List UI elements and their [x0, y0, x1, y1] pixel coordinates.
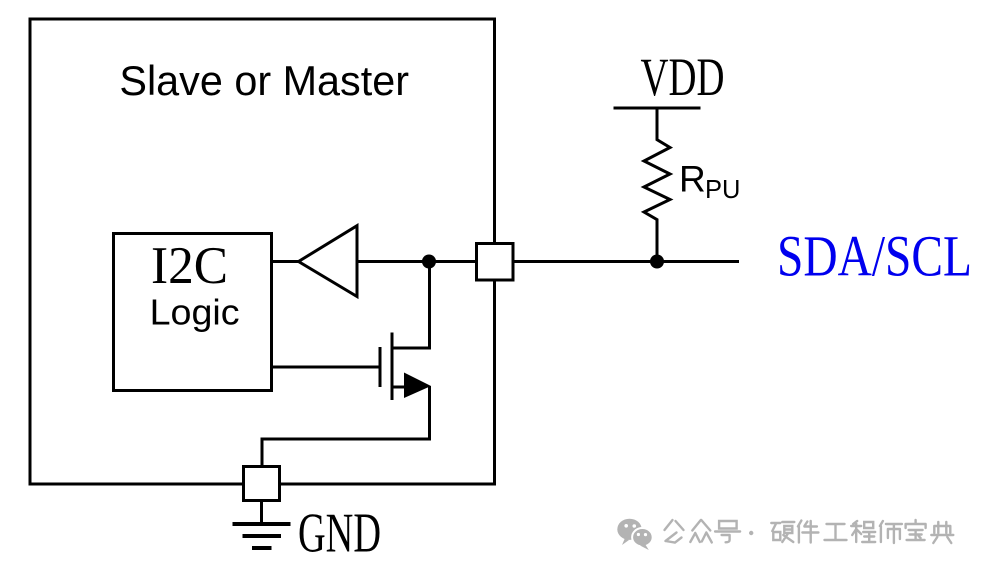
svg-text:VDD: VDD: [641, 47, 725, 107]
svg-text:GND: GND: [298, 503, 381, 565]
svg-text:PU: PU: [705, 176, 740, 204]
svg-text:I2C: I2C: [151, 237, 228, 295]
svg-text:Logic: Logic: [150, 292, 240, 333]
svg-text:R: R: [679, 159, 706, 200]
svg-text:SDA/SCL: SDA/SCL: [777, 224, 972, 289]
svg-text:Slave or Master: Slave or Master: [119, 57, 409, 104]
